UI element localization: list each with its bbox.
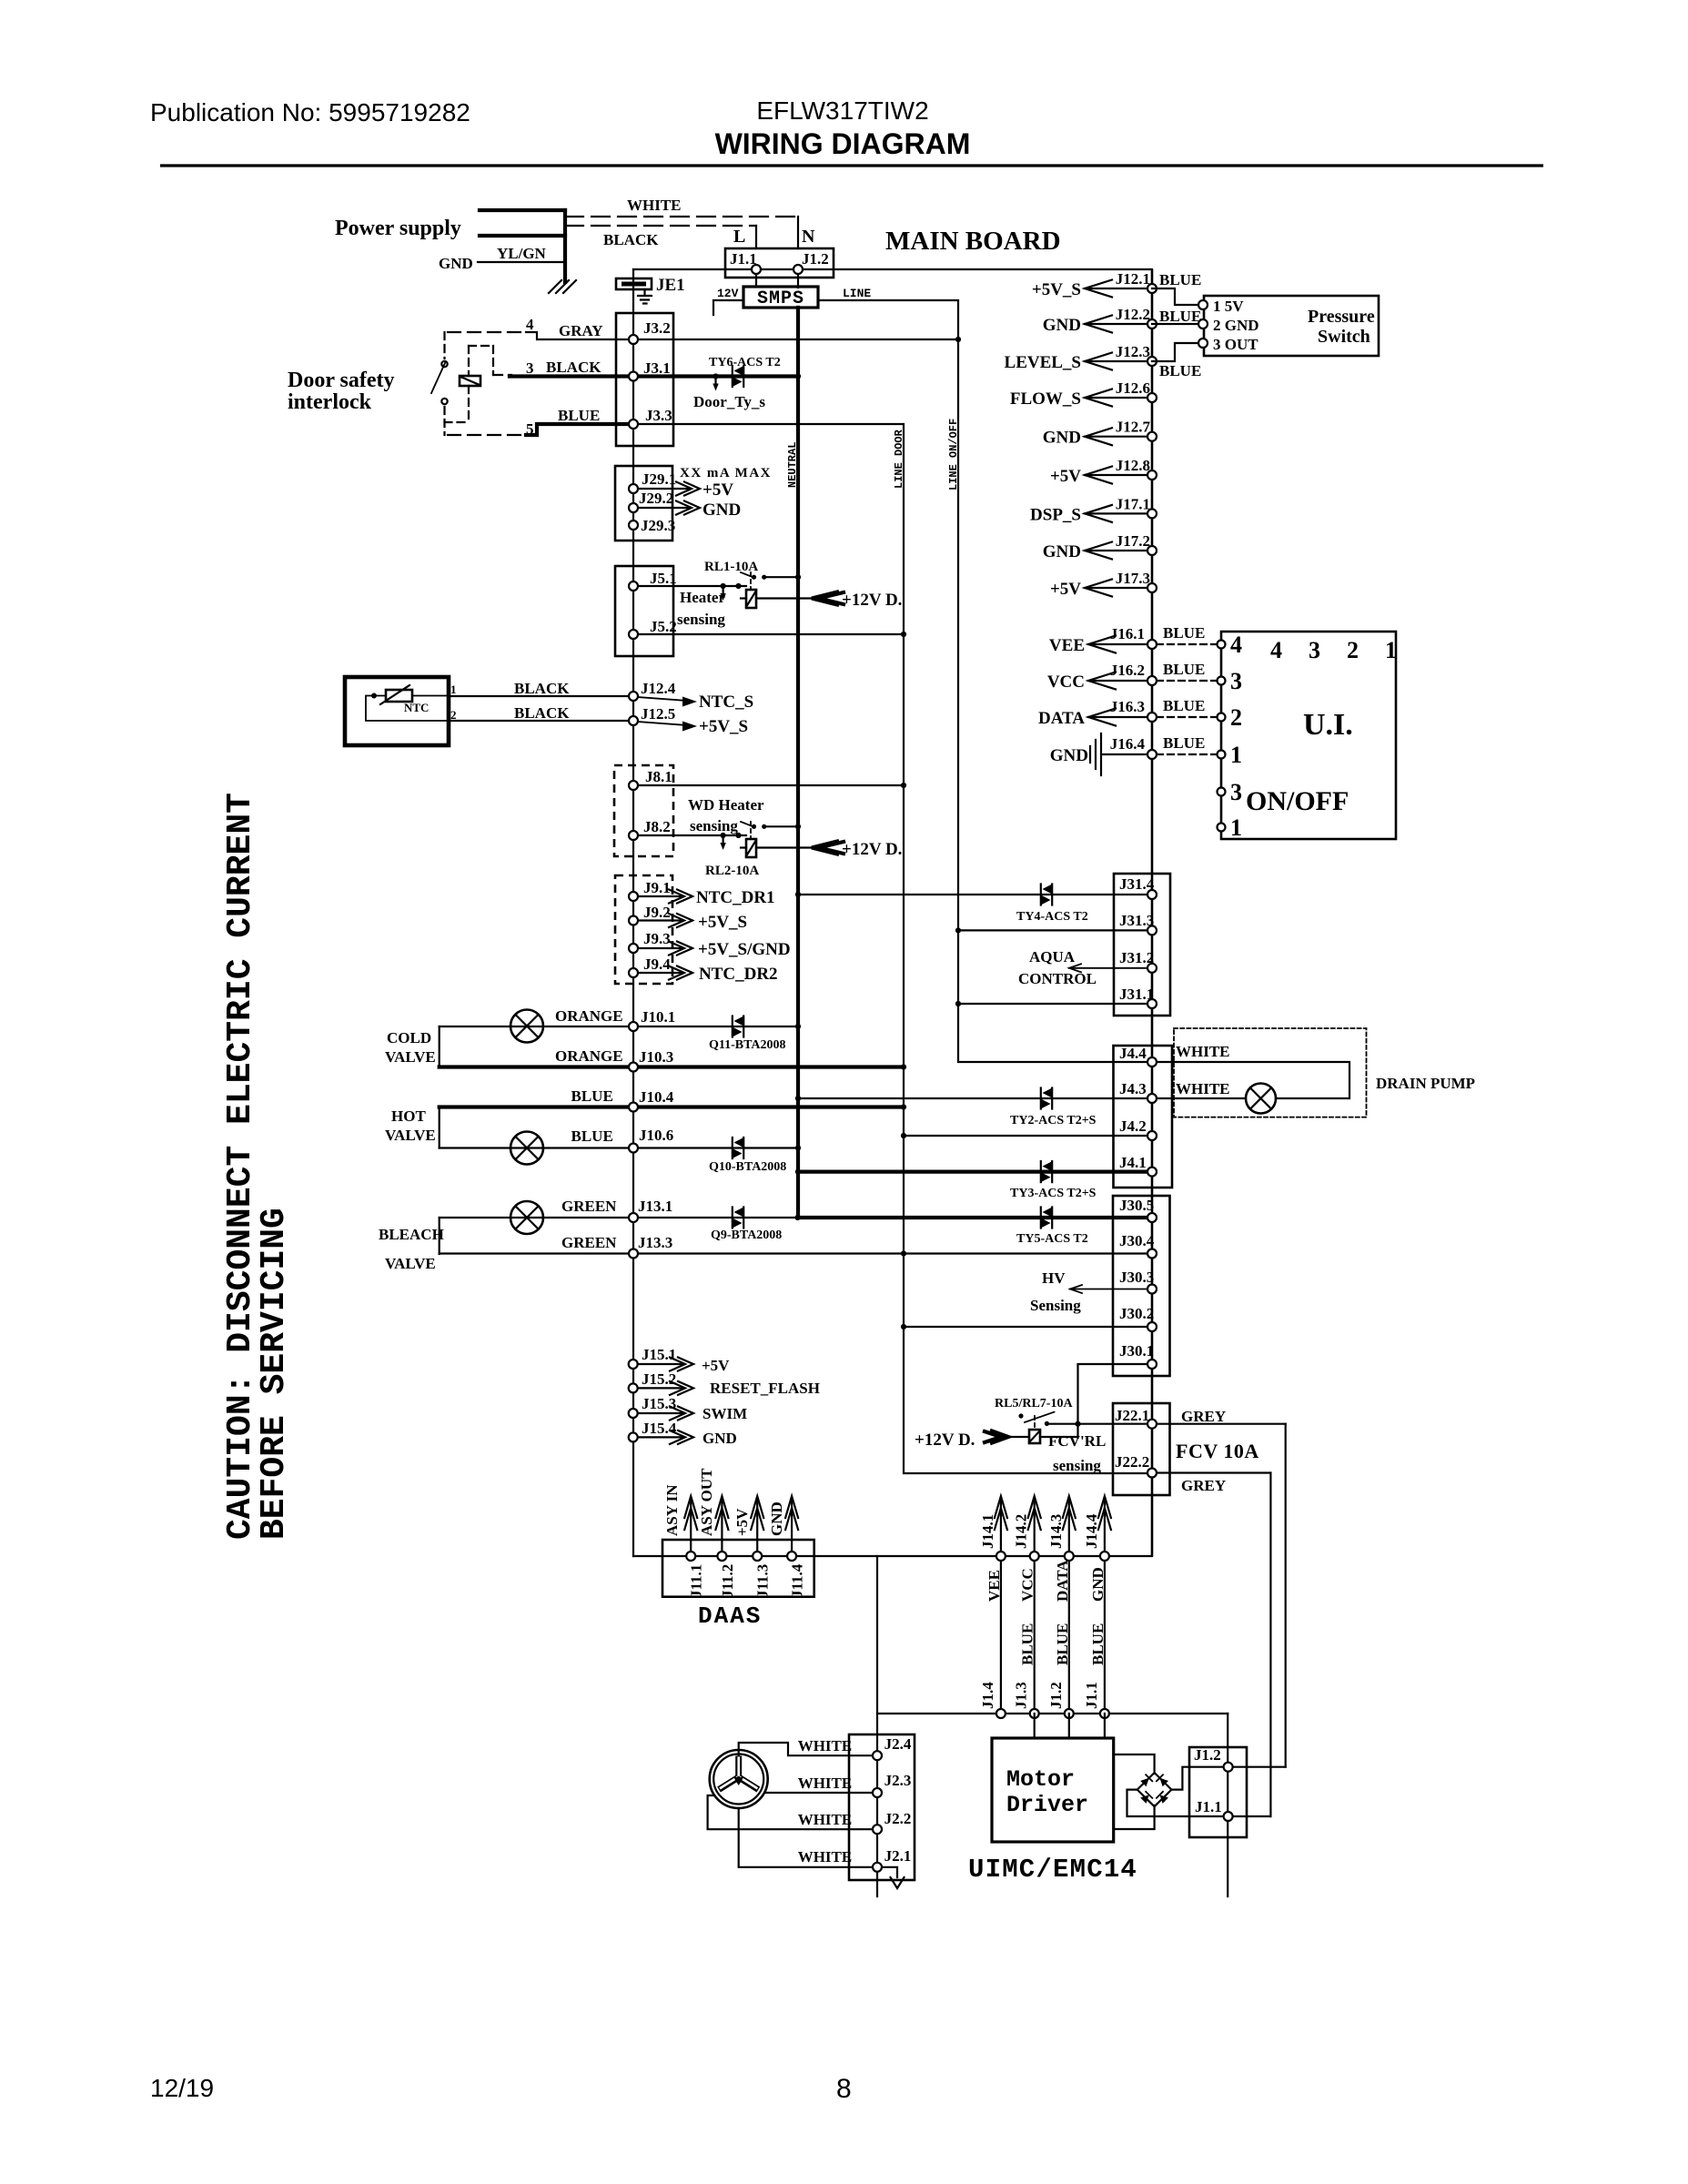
pin J10.6 — [629, 1144, 638, 1153]
triac TY4 — [1041, 885, 1052, 905]
svg-text:J30.1: J30.1 — [1119, 1342, 1154, 1360]
node J4.1 neutral junction — [795, 1169, 801, 1175]
arrow J16.4 GND — [1103, 753, 1147, 755]
pin J1.2 — [1065, 1709, 1074, 1718]
svg-text:J15.4: J15.4 — [642, 1420, 677, 1437]
wire J5.2 — [638, 633, 904, 635]
arrow J15.1 +5V — [638, 1363, 682, 1365]
wire LINE on/off — [818, 300, 1147, 1062]
svg-text:Power supply: Power supply — [335, 217, 461, 240]
node door_ty_s gate — [713, 373, 718, 379]
wire RL2 coil +12V — [756, 846, 812, 848]
pin J5.2 — [629, 630, 638, 639]
node J10.3 line-door junction — [901, 1064, 906, 1069]
wire BLUE line door — [633, 424, 1147, 1473]
wire J4.3 from neutral — [798, 1097, 1147, 1099]
svg-text:J4.3: J4.3 — [1119, 1080, 1147, 1097]
svg-text:J9.4: J9.4 — [643, 955, 671, 973]
drain pump symbol — [1246, 1084, 1276, 1114]
svg-text:TY6-ACS T2: TY6-ACS T2 — [709, 356, 781, 369]
svg-text:SMPS: SMPS — [757, 288, 804, 309]
svg-text:GND: GND — [768, 1501, 785, 1536]
wire grey2 vertical — [1269, 1473, 1271, 1817]
pin pressure 1 — [1198, 300, 1208, 309]
arrow J12.3 LEVEL_S — [1085, 360, 1147, 362]
svg-text:GND: GND — [1043, 429, 1081, 448]
arrow J14.2 — [1034, 1500, 1036, 1552]
pin J29.1 — [629, 484, 638, 493]
node J13.1 neutral junction — [795, 1215, 801, 1220]
wire RL2 contact to neutral — [764, 825, 798, 827]
wire J16.2 dashed to UI — [1157, 680, 1217, 682]
connector J8 dashed box — [614, 765, 673, 856]
pin UI 3 — [1218, 677, 1226, 685]
pin J9.3 — [629, 944, 638, 953]
svg-text:Switch: Switch — [1318, 327, 1370, 347]
svg-text:RL2-10A: RL2-10A — [705, 864, 759, 878]
wire GRAY to line — [633, 339, 958, 340]
pin J12.6 — [1147, 393, 1157, 402]
svg-text:J15.1: J15.1 — [642, 1346, 676, 1363]
svg-text:SWIM: SWIM — [702, 1405, 747, 1422]
svg-text:J9.2: J9.2 — [643, 904, 671, 921]
wire WHITE J4.4 to pump — [1152, 1062, 1349, 1098]
component U.I. box — [1221, 632, 1396, 839]
svg-text:1 5V: 1 5V — [1213, 298, 1244, 315]
wire J12.3 to pressure pin3 — [1152, 343, 1198, 361]
pin J8.1 — [629, 781, 638, 790]
svg-text:+5V_S/GND: +5V_S/GND — [698, 940, 791, 959]
pin J10.3 — [629, 1063, 638, 1072]
wire J1 horizontal — [877, 1713, 1228, 1714]
svg-text:J14.3: J14.3 — [1047, 1514, 1065, 1549]
pin J1.2 — [793, 265, 803, 274]
arrow J29.1 +5V — [638, 488, 689, 490]
svg-text:BLUE: BLUE — [1089, 1623, 1107, 1665]
svg-text:J30.3: J30.3 — [1119, 1269, 1154, 1286]
relay RL2 contact — [741, 822, 753, 827]
svg-text:J5.2: J5.2 — [650, 618, 677, 635]
svg-text:J11.2: J11.2 — [719, 1564, 736, 1598]
svg-text:VALVE: VALVE — [385, 1255, 436, 1272]
connector J1 uimc box — [1189, 1747, 1247, 1837]
svg-text:J1.2: J1.2 — [802, 250, 829, 268]
relay FCV contact — [1018, 1413, 1023, 1418]
svg-text:GREY: GREY — [1181, 1477, 1226, 1494]
svg-text:J15.2: J15.2 — [642, 1370, 676, 1388]
svg-text:LEVEL_S: LEVEL_S — [1005, 353, 1081, 372]
pin J15.2 — [629, 1383, 638, 1392]
svg-text:J11.4: J11.4 — [789, 1563, 806, 1598]
pin J30.3 — [1147, 1285, 1157, 1294]
svg-text:DRAIN PUMP: DRAIN PUMP — [1376, 1075, 1475, 1092]
cold valve outline — [439, 1026, 440, 1067]
svg-text:2: 2 — [450, 708, 457, 722]
arrow J15.2 RESET_FLASH — [638, 1387, 682, 1389]
svg-text:J13.1: J13.1 — [638, 1198, 672, 1215]
wire L to SMPS — [755, 269, 757, 287]
svg-text:VALVE: VALVE — [385, 1048, 436, 1066]
pin J4.4 — [1147, 1057, 1157, 1067]
svg-text:J12.2: J12.2 — [1116, 306, 1150, 323]
triac TY2 — [1041, 1088, 1052, 1109]
svg-text:3 OUT: 3 OUT — [1213, 336, 1258, 353]
pin J31.2 — [1147, 964, 1157, 973]
wire GREY J22.2 — [1152, 1471, 1270, 1473]
thermistor NTC — [380, 685, 412, 704]
svg-text:GND: GND — [1043, 316, 1081, 335]
connector J1 box — [725, 248, 834, 278]
svg-text:L: L — [733, 227, 745, 247]
connector J22 box — [1113, 1403, 1170, 1495]
svg-text:J29.3: J29.3 — [641, 517, 675, 534]
ground symbol power supply — [549, 280, 576, 293]
wire left bus — [632, 269, 634, 1556]
svg-text:1: 1 — [450, 682, 457, 696]
arrow NTC_DR1 — [638, 895, 681, 897]
interlock relay coil — [460, 376, 480, 386]
svg-text:J12.5: J12.5 — [641, 705, 675, 723]
pin J2.1 — [873, 1863, 882, 1872]
svg-text:sensing: sensing — [1053, 1457, 1101, 1474]
wire J8.1 to line door — [638, 784, 904, 786]
svg-text:J11.3: J11.3 — [754, 1564, 772, 1598]
node neutral RL1 junction — [795, 574, 801, 580]
interlock switch lever — [431, 363, 445, 393]
component motor driver box — [992, 1738, 1114, 1842]
wire J14.4 to J1 — [1104, 1556, 1106, 1714]
svg-text:EFLW317TIW2: EFLW317TIW2 — [756, 96, 928, 125]
header rule — [160, 164, 1543, 167]
wire N neutral bus — [797, 269, 799, 288]
pin pressure 3 — [1198, 339, 1208, 348]
svg-text:+12V D.: +12V D. — [842, 840, 902, 859]
svg-text:LINE: LINE — [843, 287, 871, 300]
node J4.3 neutral junction — [795, 1096, 801, 1101]
pin UI 1 — [1218, 751, 1226, 759]
connector DAAS J11 box — [662, 1540, 814, 1597]
svg-text:WHITE: WHITE — [798, 1848, 853, 1865]
relay FCV coil — [1029, 1430, 1040, 1443]
pin J22.1 — [1147, 1420, 1157, 1429]
pin J10.1 — [629, 1022, 638, 1031]
svg-text:J4.2: J4.2 — [1119, 1117, 1147, 1135]
wire WHITE J4.3 to pump — [1152, 1097, 1246, 1099]
wire gray step — [526, 332, 633, 339]
interlock dashed outline — [448, 331, 526, 333]
svg-text:ASY IN: ASY IN — [663, 1484, 681, 1536]
wire J31.1 from line — [958, 1003, 1147, 1005]
svg-text:+5V_S: +5V_S — [1032, 280, 1081, 299]
wire J14.3 to J1 — [1068, 1556, 1070, 1714]
wire BLUE J10.4 — [440, 1105, 904, 1108]
svg-text:J16.1: J16.1 — [1110, 625, 1145, 642]
node gray-line junction — [955, 337, 961, 342]
svg-text:FCV'RL: FCV'RL — [1048, 1432, 1106, 1450]
svg-text:J2.2: J2.2 — [884, 1810, 912, 1827]
triac TY5 — [1041, 1208, 1052, 1228]
svg-text:Door safety: Door safety — [288, 369, 395, 392]
connector J31 box — [1114, 874, 1170, 1016]
bridge rectifier — [1137, 1773, 1172, 1806]
svg-text:2 GND: 2 GND — [1213, 317, 1259, 334]
wire GND yl/gn — [478, 261, 565, 263]
node black-neutral junction — [795, 373, 801, 379]
svg-text:4: 4 — [526, 316, 534, 333]
pin J13.1 — [629, 1213, 638, 1222]
wire blue step — [526, 424, 633, 435]
pin UI 2 — [1218, 713, 1226, 722]
svg-text:3: 3 — [1230, 779, 1242, 805]
arrow J17.3 +5V — [1085, 587, 1147, 589]
pin J17.1 — [1147, 509, 1157, 518]
arrow J16.1 VEE — [1088, 643, 1147, 645]
svg-text:J30.4: J30.4 — [1119, 1232, 1155, 1249]
svg-text:J10.4: J10.4 — [639, 1088, 674, 1106]
svg-text:NEUTRAL: NEUTRAL — [786, 442, 799, 488]
svg-text:Motor: Motor — [1006, 1766, 1075, 1793]
connector J2 box — [849, 1734, 915, 1880]
component SMPS — [743, 287, 818, 308]
svg-text:J8.1: J8.1 — [645, 768, 672, 785]
svg-text:ON/OFF: ON/OFF — [1246, 786, 1349, 816]
svg-text:sensing: sensing — [690, 817, 738, 834]
svg-text:J30.5: J30.5 — [1119, 1197, 1154, 1214]
pin J1.1 — [1100, 1709, 1109, 1718]
svg-text:J2.4: J2.4 — [884, 1735, 912, 1753]
svg-text:VCC: VCC — [1019, 1568, 1036, 1602]
svg-text:BLUE: BLUE — [1159, 308, 1201, 325]
svg-text:1: 1 — [1230, 814, 1242, 841]
arrow J29.2 GND — [638, 507, 689, 509]
svg-text:BLEACH: BLEACH — [379, 1226, 444, 1243]
svg-text:J1.4: J1.4 — [979, 1682, 996, 1709]
pin pressure 2 — [1198, 319, 1208, 329]
svg-text:3: 3 — [1309, 637, 1320, 663]
svg-text:+5V: +5V — [733, 1508, 751, 1536]
svg-text:J5.1: J5.1 — [650, 570, 677, 587]
pin J1.4 — [996, 1709, 1006, 1718]
arrow J14.3 — [1068, 1500, 1070, 1552]
wire BLUE J10.6 — [440, 1147, 798, 1148]
svg-text:J1.1: J1.1 — [1083, 1682, 1100, 1709]
svg-text:BLUE: BLUE — [1054, 1623, 1071, 1665]
pin J17.2 — [1147, 546, 1157, 555]
svg-text:Q9-BTA2008: Q9-BTA2008 — [711, 1228, 782, 1242]
pin J31.1 — [1147, 999, 1157, 1008]
pin J9.4 — [629, 968, 638, 977]
svg-text:BEFORE SERVICING: BEFORE SERVICING — [255, 1208, 294, 1540]
triac TY3 — [1041, 1161, 1052, 1182]
svg-text:J1.1: J1.1 — [730, 250, 757, 268]
svg-text:AQUA: AQUA — [1029, 948, 1076, 966]
wire power supply drop — [563, 210, 567, 282]
pin J2.2 — [873, 1825, 882, 1834]
pin J16.2 — [1147, 676, 1157, 685]
pin J9.1 — [629, 892, 638, 901]
wire grey1 vertical — [1285, 1424, 1287, 1767]
svg-text:RL5/RL7-10A: RL5/RL7-10A — [995, 1397, 1073, 1410]
triac Q11 — [733, 1016, 743, 1037]
svg-text:4: 4 — [1270, 637, 1282, 663]
svg-text:WD Heater: WD Heater — [688, 796, 764, 814]
svg-text:2: 2 — [1230, 704, 1242, 731]
pin J12.2 — [1147, 319, 1157, 329]
svg-text:XX mA MAX: XX mA MAX — [680, 466, 772, 480]
svg-text:J12.4: J12.4 — [641, 680, 676, 697]
wire J30.2 from line door — [904, 1326, 1147, 1328]
connector J5 box — [615, 566, 673, 656]
svg-text:+5V: +5V — [702, 1357, 730, 1374]
component JE1 — [616, 278, 652, 289]
svg-text:J1.1: J1.1 — [1195, 1798, 1222, 1815]
svg-text:BLUE: BLUE — [1163, 624, 1205, 642]
svg-text:+5V_S: +5V_S — [698, 913, 747, 932]
wire DAAS bus — [633, 1555, 1152, 1557]
svg-text:BLUE: BLUE — [1163, 661, 1205, 678]
svg-text:BLUE: BLUE — [558, 407, 600, 424]
pin J14.4 — [1100, 1552, 1109, 1561]
svg-text:1: 1 — [1230, 742, 1242, 768]
svg-text:J17.1: J17.1 — [1116, 495, 1150, 512]
svg-text:J22.2: J22.2 — [1115, 1453, 1149, 1471]
svg-text:Q10-BTA2008: Q10-BTA2008 — [709, 1160, 786, 1174]
connector J3 box — [616, 313, 673, 446]
svg-text:BLACK: BLACK — [603, 231, 659, 248]
svg-text:YL/GN: YL/GN — [497, 245, 547, 262]
svg-text:J12.6: J12.6 — [1116, 379, 1150, 397]
svg-text:BLUE: BLUE — [1159, 362, 1201, 379]
svg-text:MAIN BOARD: MAIN BOARD — [885, 227, 1061, 256]
wire J12.2 to pressure pin2 — [1152, 323, 1198, 325]
arrow J16.2 VCC — [1088, 680, 1147, 682]
triac TY6 — [733, 366, 743, 387]
wire J31.3 from line — [958, 929, 1147, 931]
svg-text:12V: 12V — [717, 287, 739, 300]
svg-text:J10.3: J10.3 — [639, 1048, 673, 1066]
svg-text:TY5-ACS T2: TY5-ACS T2 — [1016, 1232, 1088, 1246]
svg-text:J12.8: J12.8 — [1116, 457, 1150, 474]
wire black dashed stub — [493, 374, 511, 376]
arrow J12.8 +5V — [1085, 474, 1147, 476]
pin J10.4 — [629, 1103, 638, 1112]
svg-text:BLUE: BLUE — [571, 1127, 613, 1145]
arrow AQUA CONTROL — [1069, 967, 1147, 969]
pin J15.3 — [629, 1409, 638, 1418]
ground symbol JE1 — [638, 289, 652, 304]
svg-text:3: 3 — [526, 359, 534, 377]
svg-text:Q11-BTA2008: Q11-BTA2008 — [709, 1038, 786, 1052]
wire ORANGE J10.1 — [440, 1026, 798, 1027]
arrow J15.3 SWIM — [638, 1412, 682, 1414]
svg-text:J29.1: J29.1 — [642, 470, 676, 488]
triac Q9 — [733, 1208, 743, 1228]
pin J1.3 — [1030, 1709, 1039, 1718]
node FCV sense junction — [1075, 1421, 1080, 1427]
cold valve symbol — [510, 1010, 543, 1043]
pin J13.3 — [629, 1249, 638, 1259]
pin J30.5 — [1147, 1213, 1157, 1222]
pin J17.3 — [1147, 583, 1157, 592]
arrow J12.2 GND — [1085, 323, 1147, 325]
svg-text:J29.2: J29.2 — [639, 490, 673, 507]
svg-text:BLUE: BLUE — [571, 1087, 613, 1105]
arrow J17.1 DSP_S — [1085, 512, 1147, 514]
svg-text:NTC: NTC — [404, 701, 429, 714]
pin J9.2 — [629, 916, 638, 925]
svg-text:VCC: VCC — [1047, 672, 1085, 692]
svg-text:Driver: Driver — [1006, 1792, 1088, 1818]
wire J8.2 to relay — [638, 834, 746, 836]
pin J12.5 — [629, 716, 638, 725]
bleach valve symbol — [510, 1201, 543, 1234]
pin J2.4 — [873, 1751, 882, 1760]
pin J11.4 — [787, 1552, 796, 1561]
arrow +5V_S — [638, 722, 687, 725]
svg-text:J9.1: J9.1 — [643, 879, 671, 896]
wire J4.2 from line door — [904, 1135, 1147, 1137]
wire RL1 contact to neutral — [764, 576, 798, 578]
wire RL1 coil +12V — [756, 597, 812, 599]
pin J29.2 — [629, 503, 638, 512]
svg-text:J13.3: J13.3 — [638, 1234, 672, 1251]
pin J3.2 — [629, 335, 638, 344]
wire WHITE J2.3 — [765, 1792, 877, 1794]
svg-text:GND: GND — [1043, 542, 1081, 561]
svg-text:+5V: +5V — [1050, 580, 1081, 599]
wire J1.1 grey link — [1127, 1790, 1271, 1816]
pin J1.2 uimc — [1224, 1763, 1233, 1772]
svg-text:2: 2 — [1347, 637, 1359, 663]
interlock inner dashed box — [469, 345, 493, 347]
svg-text:VEE: VEE — [1049, 636, 1085, 655]
wire WHITE J2.1 — [739, 1808, 877, 1867]
svg-text:1: 1 — [1385, 637, 1397, 663]
wire J14.1 to J1 — [1000, 1556, 1002, 1714]
arrow ASY IN — [690, 1500, 692, 1552]
wire motor driver input 1 — [1034, 1714, 1036, 1738]
pin J29.3 — [629, 521, 638, 530]
pin UI 4 — [1218, 641, 1226, 649]
arrow J14.4 — [1104, 1500, 1106, 1552]
wire power supply line 2 — [480, 234, 565, 238]
arrow J16.3 DATA — [1088, 716, 1147, 718]
pin J1.1 uimc — [1224, 1812, 1233, 1821]
svg-text:Sensing: Sensing — [1030, 1297, 1081, 1314]
arrow NTC_S — [638, 697, 687, 701]
svg-text:J30.2: J30.2 — [1119, 1305, 1154, 1322]
wire WHITE J2.2 — [708, 1795, 877, 1829]
pin J30.4 — [1147, 1249, 1157, 1259]
svg-text:J12.7: J12.7 — [1116, 419, 1151, 436]
svg-text:4: 4 — [1230, 632, 1242, 658]
arrow +5V_S/GND — [638, 947, 681, 949]
arrow HV sensing — [1070, 1289, 1147, 1290]
wire main board top — [633, 268, 1152, 270]
svg-text:ASY OUT: ASY OUT — [698, 1468, 715, 1536]
svg-text:J15.3: J15.3 — [642, 1395, 676, 1412]
arrow NTC_DR2 — [638, 972, 681, 974]
pin J3.3 — [629, 420, 638, 429]
svg-text:J3.1: J3.1 — [643, 359, 671, 377]
svg-text:GREEN: GREEN — [561, 1198, 617, 1215]
svg-text:BLUE: BLUE — [1163, 697, 1205, 714]
pin J11.3 — [753, 1552, 762, 1561]
svg-text:J3.3: J3.3 — [645, 407, 672, 424]
svg-text:BLUE: BLUE — [1159, 271, 1201, 288]
node J10.1 neutral junction — [795, 1024, 801, 1029]
svg-text:GND: GND — [1089, 1567, 1107, 1602]
